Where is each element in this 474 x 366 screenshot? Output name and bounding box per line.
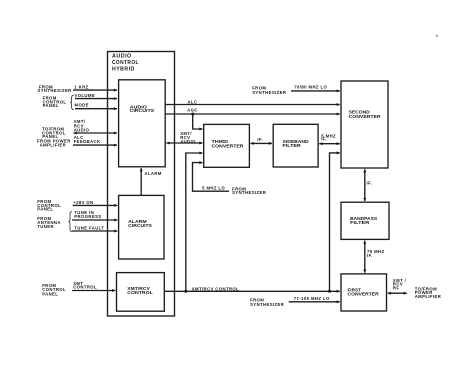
svg-text:SYNTHESIZER: SYNTHESIZER bbox=[232, 190, 266, 195]
svg-text:SYNTHESIZER: SYNTHESIZER bbox=[252, 90, 286, 95]
svg-text:RF: RF bbox=[393, 285, 399, 290]
svg-text:IF.: IF. bbox=[367, 253, 373, 258]
svg-text:VOLUME: VOLUME bbox=[75, 93, 96, 98]
svg-text:CONVERTER: CONVERTER bbox=[212, 144, 244, 149]
svg-text:5 MHZ LO: 5 MHZ LO bbox=[202, 186, 225, 191]
svg-text:CIRCUITS: CIRCUITS bbox=[130, 108, 155, 113]
svg-text:CONTROL: CONTROL bbox=[73, 285, 97, 290]
svg-text:+28V ON: +28V ON bbox=[73, 200, 93, 205]
svg-text:FILTER: FILTER bbox=[283, 143, 301, 148]
svg-text:ALC: ALC bbox=[187, 100, 197, 105]
svg-text:TUNER: TUNER bbox=[37, 224, 54, 229]
svg-text:1 KHZ: 1 KHZ bbox=[74, 85, 88, 90]
svg-text:CONTROL: CONTROL bbox=[112, 60, 139, 66]
svg-text:CIRCUITS: CIRCUITS bbox=[128, 223, 152, 228]
svg-text:IF.: IF. bbox=[321, 137, 327, 142]
svg-text:AMPLIFIER: AMPLIFIER bbox=[40, 143, 67, 148]
svg-text:77-105 MHZ LO: 77-105 MHZ LO bbox=[294, 296, 330, 301]
svg-text:AGC: AGC bbox=[187, 108, 198, 113]
svg-text:FILTER: FILTER bbox=[350, 220, 369, 225]
svg-text:IF.: IF. bbox=[257, 137, 263, 142]
svg-text:AUDIO: AUDIO bbox=[180, 139, 196, 144]
svg-text:FEEDBACK: FEEDBACK bbox=[74, 139, 101, 144]
svg-text:CONTROL: CONTROL bbox=[127, 290, 153, 295]
svg-text:AUDIO: AUDIO bbox=[74, 127, 90, 132]
svg-text:IF.: IF. bbox=[367, 180, 373, 185]
svg-text:XMT/RCV CONTROL: XMT/RCV CONTROL bbox=[192, 286, 239, 291]
svg-text:SYNTHESIZER: SYNTHESIZER bbox=[250, 302, 284, 307]
svg-text:TUNE FAULT: TUNE FAULT bbox=[74, 225, 104, 230]
svg-text:70/80 MHZ LO: 70/80 MHZ LO bbox=[294, 85, 327, 90]
svg-text:PANEL: PANEL bbox=[37, 207, 53, 212]
svg-text:ALARM: ALARM bbox=[144, 171, 161, 176]
svg-text:HYBRID: HYBRID bbox=[112, 66, 135, 72]
svg-text:PANEL: PANEL bbox=[43, 103, 59, 108]
svg-text:MODE: MODE bbox=[75, 102, 89, 107]
svg-text:CONVERTER: CONVERTER bbox=[349, 114, 381, 119]
svg-text:AUDIO: AUDIO bbox=[112, 54, 132, 60]
svg-text:SYNTHESIZER: SYNTHESIZER bbox=[38, 88, 72, 93]
svg-text:PANEL: PANEL bbox=[42, 291, 58, 296]
svg-text:AMPLIFIER: AMPLIFIER bbox=[415, 294, 442, 299]
svg-text:PROGRESS: PROGRESS bbox=[74, 214, 101, 219]
svg-text:CONVERTER: CONVERTER bbox=[348, 292, 379, 297]
